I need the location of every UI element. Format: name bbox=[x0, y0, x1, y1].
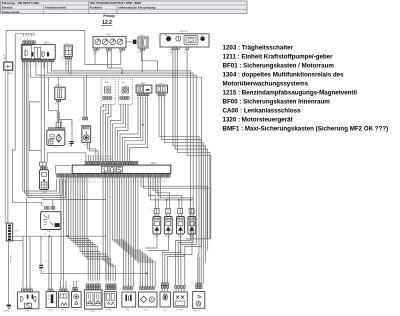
1211 float symbol bbox=[50, 134, 55, 137]
svg-text:C 1: C 1 bbox=[44, 234, 47, 236]
injector connector 1333 bbox=[178, 209, 183, 214]
svg-text:2: 2 bbox=[33, 66, 34, 68]
svg-text:4: 4 bbox=[95, 182, 96, 184]
inertia switch 1203 bbox=[41, 212, 61, 230]
svg-text:1: 1 bbox=[57, 182, 58, 184]
BF01 bottom pin bbox=[57, 100, 59, 102]
dashed function box 1 bbox=[101, 79, 115, 104]
injector control chains from ECU bbox=[153, 177, 158, 208]
junction on BA11 drop bbox=[142, 124, 144, 126]
svg-text:1: 1 bbox=[185, 212, 186, 214]
svg-text:1: 1 bbox=[131, 284, 132, 286]
svg-text:C A00: C A00 bbox=[105, 33, 112, 36]
svg-text:B: B bbox=[97, 182, 98, 184]
1304 right relay coil bbox=[42, 52, 45, 57]
svg-text:9: 9 bbox=[147, 179, 148, 181]
C801 pins bbox=[158, 93, 160, 95]
svg-text:4: 4 bbox=[30, 286, 31, 288]
svg-text:6: 6 bbox=[147, 284, 148, 286]
svg-text:6: 6 bbox=[105, 101, 106, 103]
bottom comp C200 bbox=[85, 290, 103, 309]
svg-text:C 12N: C 12N bbox=[177, 309, 183, 311]
wires 7120 bbox=[73, 281, 75, 288]
svg-text:4: 4 bbox=[20, 39, 21, 41]
svg-text:1304: 1304 bbox=[44, 41, 50, 45]
wires C101b bbox=[161, 288, 163, 292]
connector above 1211 bbox=[56, 123, 60, 128]
wires MC12 bbox=[197, 281, 199, 283]
relay box 1304 bbox=[21, 45, 55, 60]
svg-text:3: 3 bbox=[162, 182, 163, 184]
svg-text:Antriebseinheit: Antriebseinheit bbox=[45, 5, 66, 9]
wires BF00 down to bus bbox=[65, 59, 67, 71]
injector connector 1334 bbox=[189, 209, 194, 214]
wires ECU bottom pins descending straight bbox=[65, 177, 67, 236]
CA00 contact bbox=[102, 39, 108, 45]
svg-text:2: 2 bbox=[145, 179, 146, 181]
wires feed 1215 bbox=[83, 77, 85, 117]
svg-text:1211 : Einheit Kraftstoffpumpe: 1211 : Einheit Kraftstoffpumpe/-geber bbox=[223, 53, 334, 60]
svg-text:BA11: BA11 bbox=[141, 82, 147, 85]
bottom comp 4600 bbox=[58, 292, 69, 308]
svg-text:2: 2 bbox=[174, 209, 175, 211]
wires ECU right pins to far right bus bbox=[141, 177, 207, 239]
svg-text:1304 : doppeltes Multifunktion: 1304 : doppeltes Multifunktionsrelais de… bbox=[223, 71, 345, 78]
svg-text:elektronische Einspritzung: elektronische Einspritzung bbox=[118, 5, 155, 9]
1211 resistor grid bbox=[49, 139, 53, 144]
wire staircase right C801 battery bbox=[159, 96, 199, 256]
svg-text:1320 : Motorsteuergerät: 1320 : Motorsteuergerät bbox=[223, 116, 293, 123]
bus y240 left bbox=[13, 240, 23, 242]
bottom comp 7120 bbox=[72, 292, 82, 308]
bulkhead connector C001 bbox=[6, 223, 12, 241]
bottom comp C12N bbox=[173, 292, 187, 307]
svg-text:1: 1 bbox=[52, 66, 53, 68]
svg-text:Motorüberwachungssystems: Motorüberwachungssystems bbox=[223, 80, 309, 87]
wire feed 1211 right bbox=[59, 112, 72, 141]
svg-text:1?: 1? bbox=[81, 161, 83, 163]
1304 contact bar 1 bbox=[32, 52, 34, 56]
svg-text:CA00 : Lenkanlassschloss: CA00 : Lenkanlassschloss bbox=[223, 107, 302, 114]
wires CA00 down bbox=[94, 50, 96, 64]
wire staircase ECU to bottom C3B 4100 comps bbox=[113, 177, 124, 286]
bottom comp MC12 bbox=[193, 292, 205, 309]
svg-text:5: 5 bbox=[112, 282, 113, 284]
BF10 bottom pin bbox=[140, 48, 142, 50]
CA00 bottom pins bbox=[94, 48, 96, 50]
svg-text:BB10 B: BB10 B bbox=[180, 31, 188, 33]
svg-text:1: 1 bbox=[24, 286, 25, 288]
svg-text:BF10: BF10 bbox=[140, 35, 146, 37]
svg-text:3: 3 bbox=[81, 182, 82, 184]
injector connector 1331 bbox=[154, 209, 159, 214]
svg-text:1 5MV2: 1 5MV2 bbox=[106, 309, 114, 311]
injector area lower bus bbox=[185, 238, 210, 240]
box2 pins bbox=[120, 97, 122, 100]
svg-text:2: 2 bbox=[162, 209, 163, 211]
svg-text:1215: 1215 bbox=[84, 145, 90, 147]
wires C12N bbox=[175, 288, 177, 292]
wire long horizontal y199.5 bbox=[42, 199, 106, 201]
bottom comp 15MV2 bbox=[105, 292, 117, 308]
svg-text:C 3B: C 3B bbox=[125, 309, 130, 311]
wire stub left of ECU bbox=[56, 165, 71, 173]
svg-text:3: 3 bbox=[88, 179, 89, 181]
1211 top pins bbox=[48, 128, 50, 131]
svg-text:8: 8 bbox=[44, 289, 45, 291]
battery terminal 2 bbox=[201, 37, 205, 41]
svg-text:1: 1 bbox=[145, 284, 146, 286]
sensor 1508 bbox=[40, 170, 49, 190]
svg-text:MM01: MM01 bbox=[5, 311, 11, 313]
injector rail from ECU bbox=[150, 177, 193, 200]
svg-text:Funktion: Funktion bbox=[90, 5, 102, 9]
svg-text:6: 6 bbox=[62, 287, 63, 289]
CA00 output black terminal bbox=[126, 41, 133, 43]
svg-text:2: 2 bbox=[73, 179, 74, 181]
bottom comp 4605 bbox=[46, 292, 57, 308]
svg-text:1: 1 bbox=[64, 179, 65, 181]
wires ECU to 15MV2 jogs bbox=[103, 260, 106, 281]
svg-text:1: 1 bbox=[162, 212, 163, 214]
wire lambda connector to ECU pin bbox=[47, 153, 86, 162]
1304 top pins bbox=[23, 41, 25, 44]
ground mass MM01 bbox=[6, 305, 11, 306]
svg-text:1: 1 bbox=[85, 182, 86, 184]
staircase A ECU to C200 pins bbox=[69, 239, 89, 281]
svg-text:Bereich: Bereich bbox=[2, 5, 13, 9]
bus wire 2 y73.0 bbox=[47, 62, 193, 286]
engine control unit 1320 bbox=[72, 165, 171, 173]
wire feed 1211 left bbox=[48, 77, 57, 122]
svg-text:1203: 1203 bbox=[47, 231, 53, 233]
svg-text:9: 9 bbox=[81, 179, 82, 181]
injector supply from ECU bbox=[149, 177, 156, 208]
svg-text:1 F?: 1 F? bbox=[54, 103, 57, 105]
svg-text:4205 4202 1304 4100: 4205 4202 1304 4100 bbox=[96, 156, 112, 158]
svg-text:MC?: MC? bbox=[68, 145, 72, 147]
wire bus to 1203 right pin bbox=[52, 200, 54, 207]
svg-text:1: 1 bbox=[14, 292, 15, 294]
wire 1304 spare drop bbox=[43, 62, 45, 68]
wire 1304 feed rail bbox=[12, 34, 34, 203]
svg-text:2: 2 bbox=[150, 209, 151, 211]
svg-text:B: B bbox=[78, 182, 79, 184]
svg-text:6: 6 bbox=[85, 179, 86, 181]
svg-text:3: 3 bbox=[14, 296, 15, 298]
battery + terminal bbox=[166, 36, 171, 41]
svg-text:8: 8 bbox=[27, 286, 28, 288]
svg-text:6: 6 bbox=[96, 281, 97, 283]
BA11 pins bbox=[137, 93, 139, 96]
svg-text:1: 1 bbox=[171, 284, 172, 286]
wire BMF1 down to C001 bbox=[7, 70, 9, 223]
svg-text:1: 1 bbox=[33, 63, 34, 65]
svg-text:3: 3 bbox=[103, 101, 104, 103]
svg-text:1: 1 bbox=[106, 282, 107, 284]
svg-text:6: 6 bbox=[125, 284, 126, 286]
1304 middle cell bbox=[34, 47, 40, 58]
bus y236 with junctions bbox=[13, 235, 107, 237]
1304 left relay cell bbox=[22, 45, 31, 58]
header table frame bbox=[1, 1, 248, 14]
svg-text:4: 4 bbox=[49, 66, 50, 68]
bottom comp C3B bbox=[122, 292, 136, 307]
svg-text:1211: 1211 bbox=[53, 147, 58, 149]
svg-text:4: 4 bbox=[38, 63, 39, 65]
battery open terminal bbox=[176, 36, 181, 41]
injector 1334 bbox=[188, 217, 196, 235]
svg-text:1: 1 bbox=[127, 101, 128, 103]
ECU top pins bbox=[85, 161, 87, 165]
svg-text:BMF 1: BMF 1 bbox=[8, 73, 15, 75]
connector above sensor 1508 bbox=[39, 162, 46, 166]
ECU internal symbols bbox=[102, 166, 108, 172]
wires injector 1331 bbox=[157, 214, 159, 217]
1203 innards bbox=[44, 215, 49, 220]
1304 bottom pins bbox=[22, 59, 24, 62]
svg-text:Komponente: Komponente bbox=[2, 10, 20, 14]
bus wire 3 y75.1 bbox=[36, 62, 196, 286]
svg-text:K: K bbox=[73, 182, 74, 184]
wire fan dashed boxes and BA11 to ECU bbox=[101, 104, 104, 161]
bus wire 4 y77.2 bbox=[31, 62, 202, 286]
svg-text:BMF1 : Maxi-Sicherungskasten (: BMF1 : Maxi-Sicherungskasten (Sicherung … bbox=[223, 125, 389, 132]
wire 1304 pin drops to ECU left pins bbox=[23, 62, 57, 191]
svg-text:1a: 1a bbox=[23, 48, 25, 50]
wire left auxiliary bbox=[4, 70, 6, 223]
wires injector 1333 bbox=[178, 200, 180, 209]
svg-text:1: 1 bbox=[107, 101, 108, 103]
wire drops to bottom comps A bbox=[22, 236, 24, 289]
svg-text:1: 1 bbox=[150, 212, 151, 214]
svg-text:2: 2 bbox=[162, 179, 163, 181]
svg-text:4: 4 bbox=[158, 281, 159, 283]
box1 pins bbox=[103, 97, 105, 100]
wires 4605 bbox=[48, 283, 50, 289]
svg-text:5: 5 bbox=[120, 101, 121, 103]
svg-text:Prinzip: Prinzip bbox=[103, 14, 114, 18]
capacitor to ground mid-bottom bbox=[40, 236, 42, 265]
injector connector 1332 bbox=[166, 209, 171, 214]
wires injector 1334 bbox=[189, 200, 191, 209]
svg-text:1215 : Benzindampfabsaugungs-M: 1215 : Benzindampfabsaugungs-Magnetventi… bbox=[223, 89, 358, 96]
capacitor element near 1211 bbox=[70, 141, 74, 142]
svg-text:6: 6 bbox=[70, 285, 71, 287]
svg-text:2: 2 bbox=[123, 284, 124, 286]
svg-text:3: 3 bbox=[128, 284, 129, 286]
injector return wires to bottom comps bbox=[145, 234, 157, 248]
svg-text:2: 2 bbox=[95, 179, 96, 181]
dashed function box 2 bbox=[119, 79, 133, 104]
1211 pump motor bbox=[56, 136, 61, 141]
wire +bat top rail bbox=[6, 31, 121, 65]
svg-text:C 200: C 200 bbox=[89, 311, 95, 313]
CA00 contact bbox=[95, 39, 101, 45]
svg-text:6 A2: 6 A2 bbox=[119, 51, 122, 54]
relay unit C1B bottom bbox=[18, 292, 39, 309]
wire Z-path left mid bbox=[30, 102, 42, 151]
1203 top pins bbox=[44, 207, 46, 210]
wire jog to MC12 pins bbox=[198, 255, 199, 283]
svg-text:B: B bbox=[59, 182, 60, 184]
svg-text:4: 4 bbox=[78, 179, 79, 181]
svg-text:1: 1 bbox=[49, 63, 50, 65]
svg-text:1: 1 bbox=[79, 121, 80, 123]
svg-text:MC10A: MC10A bbox=[10, 255, 13, 262]
svg-text:P: P bbox=[151, 298, 153, 302]
svg-text:3: 3 bbox=[38, 66, 39, 68]
wire C001 to ground bbox=[8, 241, 10, 305]
svg-text:7: 7 bbox=[169, 179, 170, 181]
svg-text:2: 2 bbox=[57, 179, 58, 181]
svg-text:8: 8 bbox=[110, 101, 111, 103]
svg-text:1203 : Trägheitsschalter: 1203 : Trägheitsschalter bbox=[223, 44, 294, 51]
1215 top pins bbox=[83, 117, 85, 120]
bus wire 1 y70.9 bbox=[52, 62, 191, 286]
CA00 contact bbox=[117, 39, 123, 45]
svg-text:5: 5 bbox=[52, 63, 53, 65]
1304 top pin drops bbox=[23, 34, 25, 36]
svg-text:4: 4 bbox=[142, 284, 143, 286]
svg-text:1 2?: 1 2? bbox=[44, 261, 47, 263]
svg-text:2: 2 bbox=[122, 101, 123, 103]
wire BF01 top bbox=[57, 77, 59, 87]
svg-text:4: 4 bbox=[147, 182, 148, 184]
bottom comp 4100 bbox=[138, 292, 157, 307]
svg-text:BF00 : Sicherungskasten Innenr: BF00 : Sicherungskasten Innenraum bbox=[223, 98, 331, 105]
svg-text:9: 9 bbox=[59, 179, 60, 181]
svg-text:2: 2 bbox=[150, 284, 151, 286]
injector 1332 bbox=[164, 217, 172, 235]
svg-text:8: 8 bbox=[139, 284, 140, 286]
CA00 contact bbox=[110, 39, 116, 45]
wire BF01 to 1211 bbox=[58, 102, 62, 128]
ECU bottom pins bbox=[57, 174, 59, 178]
wire 1304 to lambda connector bbox=[40, 62, 42, 162]
injector 1333 bbox=[177, 217, 185, 235]
wire ECU pin riser 2 bbox=[87, 155, 89, 161]
svg-text:2: 2 bbox=[185, 209, 186, 211]
svg-text:3: 3 bbox=[93, 281, 94, 283]
wire 1215 to ECU pins bbox=[88, 142, 96, 161]
svg-text:4: 4 bbox=[125, 101, 126, 103]
svg-text:1: 1 bbox=[174, 212, 175, 214]
BB10 bottom pins bbox=[172, 47, 174, 50]
svg-text:C 1B: C 1B bbox=[25, 311, 30, 313]
bottom comp C101b bbox=[160, 292, 170, 307]
long bottom horizontal bbox=[41, 272, 148, 274]
staircase B ECU to C200/15MV2 pins bbox=[80, 177, 100, 281]
fuel pump unit 1211 bbox=[47, 130, 65, 145]
svg-text:8 F: 8 F bbox=[184, 53, 186, 55]
maxi fuse housing bbox=[184, 36, 198, 45]
svg-text:1: 1 bbox=[17, 39, 18, 41]
svg-text:MC1?: MC1? bbox=[195, 311, 201, 313]
svg-text:3: 3 bbox=[21, 286, 22, 288]
wires injector 1332 bbox=[166, 200, 168, 209]
wire C001 to 1203 bbox=[12, 202, 42, 206]
purge valve 1215 bbox=[82, 126, 91, 143]
injector 1331 bbox=[153, 217, 161, 235]
BF00 bottom pins bbox=[65, 57, 67, 59]
svg-text:BF01 : Sicherungskasten / Moto: BF01 : Sicherungskasten / Motorraum bbox=[223, 62, 335, 69]
1304 contact bar 2 bbox=[47, 52, 49, 56]
svg-text:5: 5 bbox=[152, 284, 153, 286]
svg-text:1320: 1320 bbox=[151, 162, 157, 165]
wire BF10 down bbox=[141, 50, 157, 71]
wires 4600 bbox=[60, 281, 62, 289]
svg-text:B: B bbox=[192, 282, 193, 284]
